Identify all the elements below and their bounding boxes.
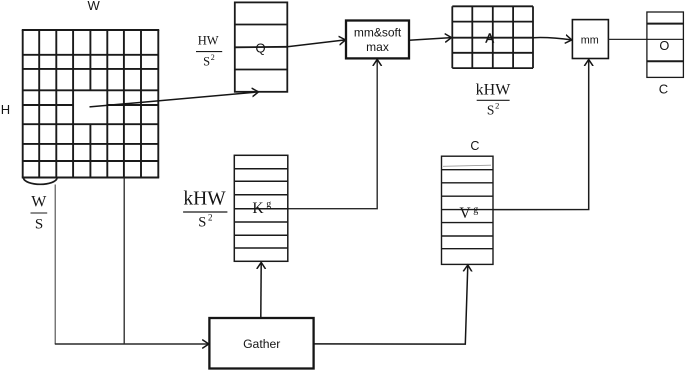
arrow: A to mm box	[533, 38, 572, 40]
wire: horizontal bus into Gather	[55, 343, 209, 345]
svg-text:H: H	[1, 102, 10, 117]
svg-text:g: g	[266, 199, 271, 210]
wire: mm to O column	[608, 38, 683, 40]
feature-map grid (8x8, H x W)	[22, 30, 159, 178]
svg-text:A: A	[485, 30, 494, 45]
O column (output)	[647, 12, 684, 77]
arrow: feature map blank cell to Q column	[90, 92, 259, 107]
wire: Gather right to Vg column (arrow up)	[314, 265, 468, 344]
A grid (4x4 attention map)	[452, 6, 533, 68]
Kg column (8 cells, gathered keys)	[234, 155, 287, 261]
svg-text:S: S	[198, 215, 206, 231]
svg-text:2: 2	[208, 212, 213, 222]
svg-text:K: K	[252, 200, 264, 217]
Gather box	[209, 318, 313, 369]
svg-text:kHW: kHW	[183, 188, 226, 209]
svg-text:W: W	[31, 193, 47, 210]
arrow: Q to mm&softmax	[287, 40, 345, 47]
svg-text:S: S	[35, 217, 43, 233]
arrow: mm&softmax to A grid	[409, 38, 451, 41]
svg-text:Q: Q	[256, 40, 266, 55]
svg-text:O: O	[659, 38, 669, 53]
faint stray line in Vg first cell	[443, 165, 491, 166]
svg-text:max: max	[366, 40, 389, 54]
svg-text:Gather: Gather	[243, 337, 280, 351]
mm&softmax box	[346, 21, 409, 59]
svg-text:mm: mm	[581, 35, 599, 47]
svg-text:C: C	[659, 81, 668, 96]
svg-text:S: S	[487, 103, 495, 118]
svg-text:mm&soft: mm&soft	[354, 26, 402, 40]
svg-text:W: W	[88, 0, 101, 13]
svg-text:C: C	[470, 139, 479, 153]
Q column (4 cells)	[235, 2, 287, 91]
wire: Vg row out to mm bottom (arrow up)	[493, 60, 589, 210]
stride arc under first grid cells	[24, 178, 58, 184]
svg-text:2: 2	[495, 101, 499, 111]
svg-text:kHW: kHW	[476, 81, 512, 98]
wire: middle vertical from grid bottom down to gather bus	[123, 178, 125, 345]
svg-text:g: g	[473, 204, 478, 215]
Vg column (8 cells, gathered values)	[442, 156, 494, 264]
mm box	[572, 20, 608, 59]
wire: Kg row out to mm&softmax bottom (arrow up)	[288, 60, 377, 209]
wire: left vertical from arc down to gather bus	[54, 185, 56, 345]
svg-text:2: 2	[211, 53, 215, 62]
wire: Gather top to Kg column (arrow up)	[260, 263, 262, 318]
svg-text:S: S	[203, 55, 210, 69]
svg-text:HW: HW	[198, 34, 219, 48]
svg-text:V: V	[459, 205, 471, 222]
